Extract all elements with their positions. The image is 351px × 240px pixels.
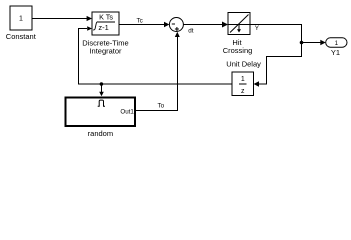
arrowhead into out port <box>320 40 325 45</box>
svg-text:random: random <box>88 129 113 138</box>
arrowhead into random top (points down) <box>99 92 104 97</box>
svg-text:Integrator: Integrator <box>89 46 122 55</box>
wire junction to out port Y1 <box>302 42 322 44</box>
sum minus sign <box>172 23 175 25</box>
svg-text:Tc: Tc <box>137 17 143 24</box>
sum block <box>169 18 183 32</box>
wire feedback up-left into integrator in2 <box>79 28 88 85</box>
wire dt: sum out to hit crossing <box>183 24 223 26</box>
arrowhead into integrator in1 <box>87 16 92 21</box>
svg-text:To: To <box>158 103 165 110</box>
wire junction down into random <box>101 84 103 92</box>
wire unit delay out, feedback left <box>79 83 233 85</box>
junction node on Y wire <box>300 41 304 45</box>
svg-text:Crossing: Crossing <box>223 46 253 55</box>
output port Y1 <box>326 38 347 47</box>
svg-text:1: 1 <box>335 40 339 47</box>
wire To: random out right then up to sum <box>136 37 178 112</box>
svg-text:Unit Delay: Unit Delay <box>226 60 261 69</box>
wire Y: hit crossing out, corner right, down <box>250 24 302 57</box>
arrowhead into sum bottom (points up) <box>175 32 180 37</box>
wire staircase down to unit delay input <box>259 56 302 85</box>
svg-text:Constant: Constant <box>6 32 37 41</box>
svg-text:Y1: Y1 <box>331 48 340 57</box>
hit crossing diagonal <box>230 15 249 33</box>
arrowhead into unit delay (points left) <box>254 81 259 86</box>
svg-text:1: 1 <box>241 76 245 83</box>
svg-text:Out1: Out1 <box>120 108 134 115</box>
unit delay block <box>232 72 254 96</box>
constant block <box>10 6 32 30</box>
random subsystem block <box>66 97 136 126</box>
discrete-time integrator block <box>92 12 119 35</box>
arrowhead into sum left <box>164 22 169 27</box>
junction node on feedback wire <box>100 82 104 86</box>
svg-text:1: 1 <box>19 16 23 23</box>
hit crossing down arrow <box>238 25 240 30</box>
hit crossing block <box>228 13 250 35</box>
wire Tc: integrator out to sum <box>119 24 165 26</box>
svg-text:z-1: z-1 <box>98 23 108 32</box>
svg-text:z: z <box>241 88 245 95</box>
sum plus sign <box>175 28 179 30</box>
svg-text:K Ts: K Ts <box>99 13 113 22</box>
trigger port symbol <box>98 100 105 106</box>
wire Constant to Discrete-Time Integrator in1 <box>32 18 87 20</box>
svg-text:dt: dt <box>188 28 194 35</box>
arrowhead into hit crossing <box>222 22 228 28</box>
arrowhead into integrator in2 <box>87 26 92 31</box>
